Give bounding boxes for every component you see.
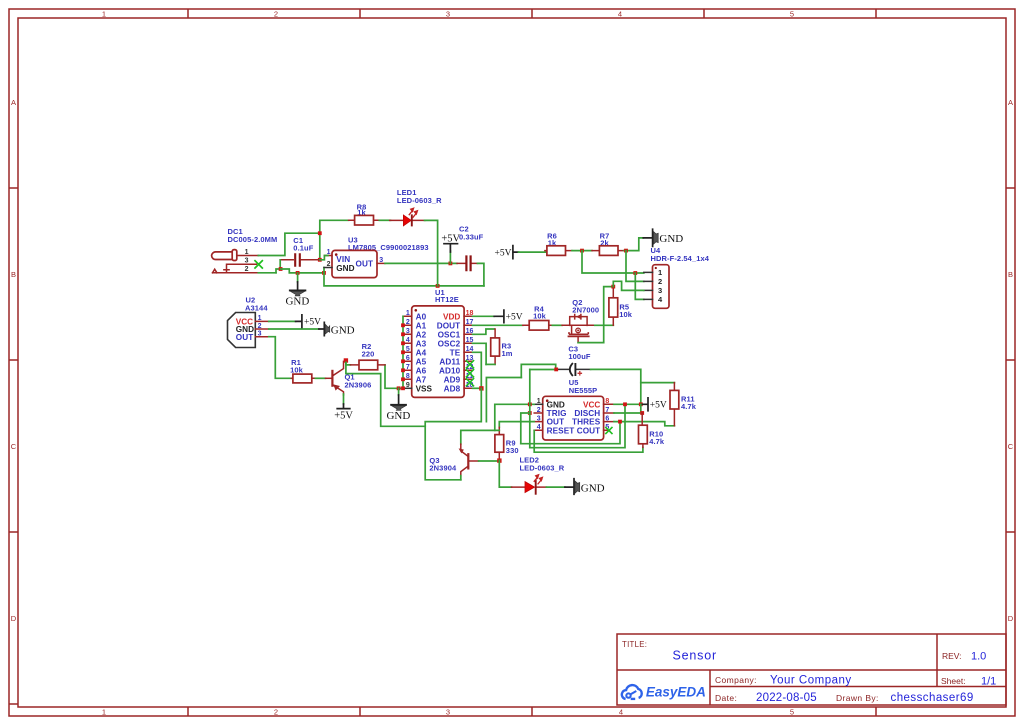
resistor R11 4.7k	[670, 383, 697, 426]
svg-text:3: 3	[658, 286, 662, 295]
wire OUT row to R9 top	[499, 422, 534, 428]
wire bus vertical through J16 J17	[529, 370, 531, 448]
transistor Q1 2N3906	[326, 361, 372, 395]
svg-text:4.7k: 4.7k	[681, 402, 697, 411]
transistor Q2 2N7000	[562, 298, 599, 343]
border ticks left	[9, 188, 18, 704]
svg-text:chesschaser69: chesschaser69	[891, 692, 974, 704]
svg-text:A: A	[1008, 98, 1013, 107]
svg-text:2N3904: 2N3904	[429, 464, 457, 473]
svg-text:+5V: +5V	[441, 234, 460, 245]
wire DISCH row	[614, 412, 642, 414]
svg-text:OUT: OUT	[356, 260, 374, 269]
power flag +5V at Q1 emitter	[334, 394, 353, 422]
svg-text:4.7k: 4.7k	[649, 437, 665, 446]
wire C1 row to U3 pin1	[320, 256, 328, 260]
svg-text:1: 1	[537, 398, 541, 405]
power flag +5V at U2 pin1	[296, 315, 322, 328]
svg-text:A5: A5	[416, 357, 427, 366]
wire H1 under chip to THRES junction	[521, 422, 620, 444]
svg-text:TRIG: TRIG	[547, 409, 567, 418]
svg-text:1/1: 1/1	[981, 676, 996, 688]
wire LED2 to GND	[546, 486, 565, 488]
junction J8	[479, 386, 483, 390]
no-connect X on DC1 pin 3	[254, 260, 263, 269]
svg-text:6: 6	[406, 355, 410, 362]
voltage regulator U3 LM7805_C9900021893	[324, 235, 429, 277]
svg-text:A3: A3	[416, 339, 427, 348]
svg-text:OUT: OUT	[236, 333, 254, 342]
junction J12 at R5 top	[611, 285, 615, 289]
svg-text:2N3906: 2N3906	[345, 380, 372, 389]
svg-text:A2: A2	[416, 330, 427, 339]
border ticks bottom	[188, 707, 876, 716]
svg-text:4: 4	[537, 424, 541, 431]
svg-text:4: 4	[619, 708, 623, 717]
svg-text:GND: GND	[285, 296, 309, 308]
wire +5V to R6	[519, 251, 547, 253]
wire R6 to R7	[572, 250, 592, 252]
svg-text:Sheet:: Sheet:	[941, 676, 966, 686]
svg-text:5: 5	[790, 708, 794, 717]
wire R3 bottom to corner	[486, 363, 495, 365]
power flag +5V at 555 VCC	[642, 398, 667, 411]
svg-text:+5V: +5V	[495, 249, 512, 259]
wire C1 left down to pin2 row	[276, 260, 280, 273]
junction J3 below U3 pin2	[322, 271, 326, 275]
resistor R10 4.7k	[639, 413, 665, 447]
hall sensor U2 A3144	[228, 296, 269, 348]
svg-text:D: D	[1008, 614, 1014, 623]
wire H2 under chip to VCC junction	[530, 404, 625, 447]
svg-text:A6: A6	[416, 366, 427, 375]
wire J3 up to U3 pin2	[323, 268, 325, 273]
wire J21 down to LED2	[499, 461, 511, 488]
svg-text:1: 1	[245, 249, 249, 256]
svg-text:AD11: AD11	[439, 357, 460, 366]
border column numbers bottom	[102, 708, 794, 717]
power flag +5V at U3 output	[441, 234, 460, 264]
no-connect X on U1 pin13	[466, 360, 474, 368]
border row letters right	[1008, 98, 1014, 623]
svg-text:COUT: COUT	[577, 426, 601, 435]
svg-text:A3144: A3144	[245, 304, 268, 313]
wire TRIG left loop under chip	[521, 413, 530, 444]
power flag +5V at U1 VDD	[473, 310, 523, 323]
wire Q3 emitter down to row	[460, 476, 462, 480]
border ticks top	[188, 9, 876, 18]
no-connect X on U1 pin12	[466, 369, 474, 377]
svg-text:100uF: 100uF	[568, 352, 590, 361]
wire staircase segment to C3 left node	[521, 364, 555, 377]
connector DC1 DC005-2.0MM	[212, 227, 278, 273]
svg-text:4: 4	[406, 337, 410, 344]
svg-text:C: C	[1008, 442, 1014, 451]
junction J17 on pin2 row	[528, 411, 532, 415]
svg-text:REV:: REV:	[942, 651, 962, 661]
svg-text:8: 8	[406, 373, 410, 380]
junction bus pin3	[401, 332, 405, 336]
svg-text:1: 1	[102, 708, 106, 717]
wire J12 jog to U4 pin3	[613, 281, 644, 290]
svg-text:GND: GND	[581, 482, 605, 494]
wire J9 down to U4 pin1 row	[582, 251, 644, 273]
junction J15	[639, 402, 643, 406]
wire U2 pin2 to GND	[269, 328, 319, 330]
svg-text:1: 1	[406, 310, 410, 317]
junction J10 after R7	[624, 249, 628, 253]
wire R1 to Q1 base	[315, 377, 325, 379]
capacitor C1 0.1uF	[280, 236, 320, 267]
wire J22 down to Hx row	[346, 363, 425, 427]
ground flag GND near C1	[285, 273, 309, 308]
wire VSS row from R2 drop	[385, 365, 403, 388]
wire vertical J1 up to R8 row	[320, 220, 349, 259]
junction J13 at C3 left	[554, 368, 558, 372]
svg-text:OSC2: OSC2	[438, 339, 461, 348]
svg-text:330: 330	[506, 446, 519, 455]
wire RESET down to H3	[534, 430, 643, 452]
svg-text:LED-0603_R: LED-0603_R	[397, 196, 442, 205]
svg-text:A7: A7	[416, 375, 427, 384]
svg-text:EasyEDA: EasyEDA	[646, 685, 706, 700]
svg-text:DOUT: DOUT	[437, 321, 461, 330]
svg-text:Drawn By:: Drawn By:	[836, 693, 879, 703]
svg-text:2N7000: 2N7000	[572, 306, 599, 315]
svg-text:AD9: AD9	[444, 375, 461, 384]
svg-text:GND: GND	[386, 410, 410, 422]
wire J3 down to bottom rail	[324, 273, 484, 286]
wire Q3 base to J21	[479, 460, 500, 462]
wire TE down to AD8 junction	[473, 352, 482, 388]
junction bus pin5	[401, 350, 405, 354]
wire J15 down to DISCH row	[640, 404, 642, 413]
svg-text:3: 3	[245, 258, 249, 265]
EasyEDA logo	[622, 685, 706, 700]
wire R4 to Q2 gate	[552, 324, 562, 326]
junction J1	[318, 231, 322, 235]
wire J11 down to U4 pin4	[635, 273, 644, 299]
svg-text:3: 3	[379, 257, 383, 264]
svg-text:3: 3	[446, 708, 450, 717]
junction J21 at R9 bottom	[497, 458, 501, 462]
svg-text:VCC: VCC	[583, 400, 600, 409]
junction J22 at Q1 collector / R2	[344, 358, 348, 362]
svg-text:VDD: VDD	[443, 312, 460, 321]
wire DC1 pin2 row to GND tap and U3	[258, 269, 324, 273]
junction J5	[449, 262, 453, 266]
junction bus pin7	[401, 368, 405, 372]
svg-text:VIN: VIN	[336, 255, 350, 264]
svg-text:1: 1	[258, 315, 262, 322]
resistor R4 10k	[523, 305, 553, 331]
svg-text:Sensor: Sensor	[673, 649, 717, 663]
wire AD8 to junction J8	[473, 387, 482, 389]
capacitor C3 100uF polarized	[558, 344, 590, 376]
wire U3 OUT to +5V node J5	[385, 262, 457, 264]
svg-text:Your Company: Your Company	[770, 675, 852, 687]
wire U5 pin1 row from staircase	[495, 404, 534, 430]
junction J20 on DISCH row	[640, 411, 644, 415]
junction J9 between R6 and R7	[580, 249, 584, 253]
svg-text:2: 2	[658, 277, 662, 286]
svg-text:2022-08-05: 2022-08-05	[756, 692, 817, 704]
no-connect X on U1 pin11	[466, 378, 474, 386]
wire address bus U1 pins 1-9	[402, 316, 404, 388]
junction bus pin6	[401, 359, 405, 363]
ground flag GND at U2 pin2	[319, 322, 355, 336]
svg-text:VSS: VSS	[416, 384, 433, 393]
junction J4 on bottom rail	[436, 284, 440, 288]
svg-text:1m: 1m	[502, 349, 513, 358]
wire THRES row to R11 bottom	[614, 422, 674, 426]
wire Q2 source loop to J12	[578, 287, 613, 343]
svg-text:4: 4	[618, 10, 622, 19]
svg-text:1: 1	[658, 268, 662, 277]
svg-text:GND: GND	[547, 400, 565, 409]
svg-text:2: 2	[245, 266, 249, 273]
svg-text:+5V: +5V	[334, 411, 353, 422]
wire VCC row	[614, 403, 642, 405]
svg-text:1.0: 1.0	[971, 651, 986, 663]
wire Q2 drain to R5 bottom	[595, 324, 614, 326]
wire OSC1 to R3 top	[473, 329, 495, 334]
junction J11 on U4 pin1 row	[633, 271, 637, 275]
svg-text:B: B	[11, 270, 16, 279]
resistor R5 10k	[609, 288, 633, 325]
junction J16 on pin1 row	[528, 402, 532, 406]
resistor R7 2k	[592, 232, 624, 256]
wire J22 to R2 left	[346, 363, 351, 365]
svg-text:HDR-F-2.54_1x4: HDR-F-2.54_1x4	[651, 254, 710, 263]
svg-text:2: 2	[258, 323, 262, 330]
wire R7 to GND corner	[624, 238, 643, 251]
wire Ha collector row	[461, 430, 500, 444]
wire U2 pin1 to +5V	[269, 320, 296, 322]
junction VSS row GND tap	[397, 386, 401, 390]
svg-text:+5V: +5V	[506, 313, 523, 323]
svg-text:2: 2	[274, 10, 278, 19]
wire J10 down to U4 pin2	[626, 251, 644, 282]
svg-text:7: 7	[605, 407, 609, 414]
svg-text:5: 5	[406, 346, 410, 353]
svg-text:1: 1	[102, 10, 106, 19]
wire J8 down to Q3 emitter row	[425, 388, 481, 480]
resistor R9 330	[495, 427, 519, 458]
wire R11 top loop	[641, 382, 675, 384]
svg-text:OUT: OUT	[547, 418, 565, 427]
LED LED1 LED-0603_R	[390, 188, 442, 226]
svg-text:+5V: +5V	[304, 318, 321, 328]
svg-text:THRES: THRES	[572, 418, 601, 427]
svg-text:C: C	[11, 442, 17, 451]
svg-text:GND: GND	[331, 325, 355, 337]
wire C2 right down to rail	[478, 263, 484, 286]
junction at C1 drop	[279, 267, 283, 271]
wire R8 to LED1	[379, 219, 390, 221]
svg-text:A1: A1	[416, 321, 427, 330]
header U4 HDR-F-2.54_1x4	[644, 246, 710, 308]
svg-text:NE555P: NE555P	[569, 386, 598, 395]
wire LED1 to vertical drop	[425, 220, 438, 286]
junction J2 at C1 right	[318, 258, 322, 262]
resistor R6 1k	[545, 232, 572, 256]
junction bus pin8	[401, 377, 405, 381]
junction J14	[623, 402, 627, 406]
svg-text:5: 5	[790, 10, 794, 19]
svg-text:A4: A4	[416, 348, 427, 357]
svg-text:LED-0603_R: LED-0603_R	[520, 463, 565, 472]
svg-text:OSC1: OSC1	[438, 330, 461, 339]
junction J18 on THRES row	[618, 420, 622, 424]
ground flag GND near U4	[643, 229, 683, 246]
svg-text:DC005-2.0MM: DC005-2.0MM	[228, 235, 278, 244]
wire U5 bus top segment to C3 node	[530, 369, 556, 371]
wire OSC2 down to R3 bottom row	[473, 343, 487, 364]
svg-text:9: 9	[406, 382, 410, 389]
capacitor C2 0.33uF	[457, 225, 484, 272]
IC U1 HT12E	[403, 288, 473, 397]
border ticks right	[1006, 188, 1015, 532]
title block frame	[617, 634, 1006, 705]
svg-text:3: 3	[406, 328, 410, 335]
svg-text:D: D	[11, 614, 17, 623]
svg-text:TE: TE	[450, 348, 461, 357]
svg-text:3: 3	[537, 416, 541, 423]
svg-text:Date:: Date:	[715, 693, 737, 703]
wire DOUT to R4	[473, 324, 523, 326]
power flag +5V feeding R6	[495, 246, 519, 259]
svg-text:A0: A0	[416, 312, 427, 321]
junction VSS row bus end	[401, 386, 405, 390]
svg-text:HT12E: HT12E	[435, 295, 459, 304]
svg-text:6: 6	[605, 416, 609, 423]
wire U2 OUT down to R1	[269, 337, 292, 379]
ground flag GND below U1	[386, 388, 410, 422]
svg-text:3: 3	[446, 10, 450, 19]
wire DC1 pin1 to node J1	[258, 233, 320, 255]
svg-text:0.1uF: 0.1uF	[293, 244, 313, 253]
resistor R3 1m	[491, 329, 513, 364]
svg-text:7: 7	[406, 364, 410, 371]
junction GND tap	[296, 271, 300, 275]
border column numbers top	[102, 10, 794, 19]
ground flag GND at LED2	[565, 479, 605, 495]
svg-text:2: 2	[274, 708, 278, 717]
svg-text:3: 3	[258, 331, 262, 338]
svg-text:10k: 10k	[533, 312, 547, 321]
transistor Q3 2N3904	[429, 444, 478, 476]
svg-text:AD10: AD10	[439, 366, 461, 375]
border row letters left	[11, 98, 17, 623]
timer U5 NE555P	[534, 378, 614, 440]
svg-text:GND: GND	[336, 264, 354, 273]
LED LED2 LED-0603_R	[512, 455, 565, 494]
svg-text:+5V: +5V	[650, 401, 667, 411]
junction bus pin4	[401, 341, 405, 345]
svg-text:A: A	[11, 98, 16, 107]
svg-text:2: 2	[406, 319, 410, 326]
svg-text:AD8: AD8	[444, 384, 461, 393]
svg-text:RESET: RESET	[547, 426, 575, 435]
resistor R8 1k	[349, 203, 380, 226]
resistor R2 220	[350, 342, 385, 370]
wire lower staircase segment	[486, 378, 521, 422]
svg-text:2: 2	[537, 407, 541, 414]
svg-text:DISCH: DISCH	[574, 409, 600, 418]
svg-text:TITLE:: TITLE:	[622, 640, 647, 649]
svg-text:GND: GND	[659, 233, 683, 245]
no-connect X on U5 pin5	[605, 427, 612, 434]
junction bus pin2	[401, 323, 405, 327]
svg-text:B: B	[1008, 270, 1013, 279]
resistor R1 10k	[290, 358, 315, 383]
wire C3 right down to VCC row	[591, 369, 641, 404]
svg-text:2: 2	[327, 261, 331, 268]
svg-text:220: 220	[362, 350, 375, 359]
svg-text:Company:: Company:	[715, 675, 757, 685]
svg-text:10k: 10k	[619, 310, 633, 319]
svg-text:0.33uF: 0.33uF	[459, 232, 484, 241]
svg-text:8: 8	[605, 398, 609, 405]
